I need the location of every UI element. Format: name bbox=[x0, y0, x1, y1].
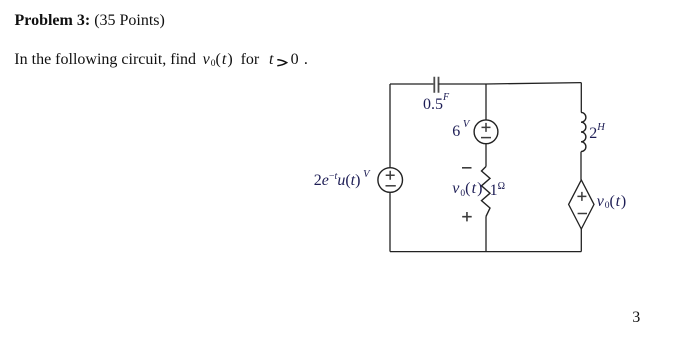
title line "Problem 3: (35 Points)" bbox=[15, 13, 165, 29]
wire left lower bbox=[389, 192, 391, 251]
wire right upper (corner to inductor) bbox=[580, 83, 582, 113]
dependent source diamond v0(t) bbox=[569, 180, 594, 229]
wire middle (6V source to resistor) bbox=[485, 144, 487, 167]
sentence part "In the following circuit, find" bbox=[14, 52, 196, 68]
inductor L 2H coil bbox=[581, 112, 586, 151]
minus polarity mark above resistor bbox=[462, 167, 472, 169]
wire top-right (sloped to right corner) bbox=[486, 83, 581, 84]
label 1 ohm for resistor bbox=[490, 183, 505, 199]
minus sign inside 6V source bbox=[481, 137, 491, 139]
voltage source 6V circle bbox=[474, 120, 498, 144]
capacitor C 0.5F plates bbox=[434, 77, 438, 93]
wire middle lower (resistor to bottom rail) bbox=[485, 216, 487, 251]
label 2e^-t u(t) V for left source bbox=[314, 173, 370, 189]
sentence math v0(t) bbox=[203, 52, 234, 68]
label v0(t) for dependent source bbox=[597, 194, 627, 210]
voltage source Vs 2e^-t u(t) circle bbox=[378, 168, 403, 193]
wire right middle (inductor to dependent source) bbox=[580, 152, 582, 180]
plus sign inside dependent source bbox=[577, 192, 586, 201]
plus sign inside 6V source bbox=[482, 123, 491, 132]
page number 3 bbox=[632, 310, 640, 326]
sentence "0" bbox=[291, 52, 299, 68]
wire right lower (dependent source to bottom rail) bbox=[580, 229, 582, 252]
plus polarity mark below resistor bbox=[462, 212, 472, 221]
label 0.5F for capacitor bbox=[423, 97, 449, 113]
sentence word "for" bbox=[241, 52, 260, 68]
minus sign inside dependent source bbox=[578, 213, 587, 215]
minus sign inside source Vs bbox=[386, 185, 396, 187]
succeeds symbol in sentence bbox=[277, 59, 288, 67]
label 2H for inductor bbox=[589, 126, 605, 142]
wire bottom rail bbox=[390, 251, 581, 253]
sentence math t bbox=[269, 52, 273, 68]
sentence period bbox=[304, 52, 308, 68]
resistor R 1ohm zigzag bbox=[482, 167, 491, 217]
wire top-middle (capacitor to middle node) bbox=[439, 83, 487, 85]
wire left upper bbox=[389, 84, 391, 168]
plus sign inside source Vs bbox=[386, 171, 395, 180]
label v0(t) for resistor voltage bbox=[452, 181, 483, 197]
wire top-left (top rail from left corner to capacitor) bbox=[390, 83, 433, 85]
label 6V for voltage source bbox=[452, 124, 469, 140]
wire middle upper (top rail to 6V source) bbox=[485, 84, 487, 120]
